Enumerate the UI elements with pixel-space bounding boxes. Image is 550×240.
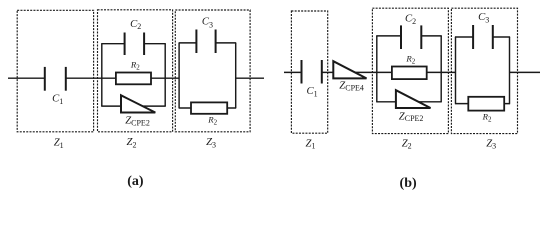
resistor R2 (a, Z3) — [191, 102, 227, 113]
resistor R2 (b, Z3) — [468, 97, 504, 111]
capacitor C2 (a) — [125, 33, 145, 56]
wire: Z3 (a) top branch — [179, 42, 197, 44]
capacitor C1 (a) — [45, 67, 66, 91]
wire: Z3 (b) right riser — [509, 37, 511, 104]
CPE element Z_CPE2 (b) — [396, 90, 431, 108]
dashed box Z1 (b) — [291, 11, 327, 133]
svg-text:(b): (b) — [400, 176, 417, 191]
wire: main line left segment into C1 (b) — [284, 71, 302, 73]
dashed box Z3 (a) — [175, 10, 250, 132]
wire: Z2 (a) left riser — [101, 44, 103, 106]
wire: main line from C1 (b) through CPE4 and Z2 to Z3 left riser (b) — [322, 71, 456, 73]
wire: Z2 (b) right riser — [440, 36, 442, 102]
capacitor C3 (a) — [196, 30, 215, 54]
wire: Z2 (b) left riser — [376, 36, 378, 102]
CPE element Z_CPE2 (a) — [121, 95, 155, 112]
wire: main line from C1 through Z2 to Z3 left riser (a) — [66, 77, 179, 79]
wire: Z2 (a) right riser — [164, 44, 166, 106]
dashed box Z1 (a) — [17, 10, 93, 132]
wire: Z3 (b) bottom branch — [455, 103, 510, 105]
wire: Z3 (a) left riser — [178, 43, 180, 108]
resistor R2 (a, Z2) — [116, 73, 151, 85]
resistor R2 (b, Z2) — [392, 67, 427, 80]
wire: Z3 (b) top branch — [455, 36, 473, 38]
wire: main line left segment into C1 (a) — [8, 77, 45, 79]
capacitor C3 (b) — [473, 25, 493, 49]
wire: Z2 (b) bottom branch — [376, 101, 442, 103]
wire: main line from Z3 (b) right riser out — [510, 71, 541, 73]
wire: Z3 (a) right riser — [235, 43, 237, 108]
CPE element Z_CPE4 (b) — [333, 61, 366, 78]
wire: Z3 (b) left riser — [455, 37, 457, 104]
wire: Z2 (a) top branch — [101, 43, 124, 45]
wire: Z2 (b) top branch — [376, 35, 401, 37]
wire: main line from Z3 right riser out (a) — [236, 77, 264, 79]
capacitor C2 (b) — [401, 25, 421, 49]
dashed box Z2 (b) — [372, 8, 448, 133]
capacitor C1 (b) — [302, 60, 322, 84]
svg-text:(a): (a) — [127, 174, 144, 189]
wire: Z3 (a) bottom branch — [179, 107, 237, 109]
dashed box Z2 (a) — [98, 10, 173, 132]
wire: Z2 (a) bottom branch — [101, 105, 166, 107]
dashed box Z3 (b) — [451, 8, 517, 133]
